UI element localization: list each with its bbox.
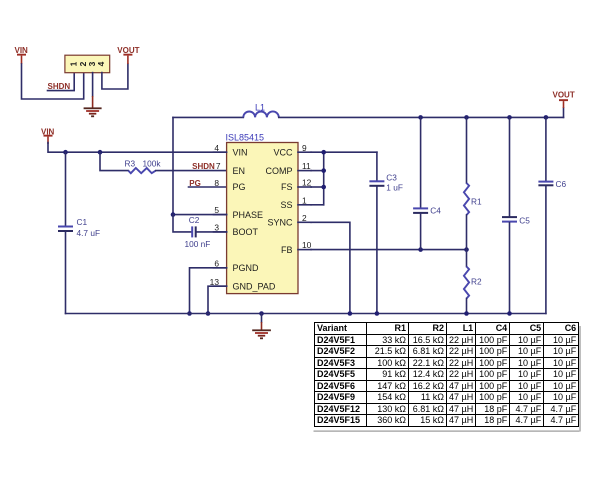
wire C6 lower [545,187,547,314]
ground (connector) [84,96,102,117]
svg-text:VIN: VIN [233,147,248,157]
wire C5 lower [509,223,511,314]
svg-text:C4: C4 [430,205,441,215]
wire C1 branch lower [65,232,67,313]
wire VIN rail to pin VIN [48,143,227,153]
svg-text:EN: EN [233,166,246,176]
table shadow bottom [314,430,580,432]
svg-text:COMP: COMP [266,166,293,176]
pin 4 (VIN) [214,143,248,158]
wire VOUT riser [563,108,565,117]
svg-text:VIN: VIN [15,46,29,55]
terminal VIN (main) [41,128,55,145]
wire SHDN to connector pin 1 [48,73,75,91]
wire GND_PAD to ground rail [208,286,227,313]
wire R2 lower [466,299,468,314]
variants table [314,322,579,427]
junction VOUT/R1 [464,115,469,120]
svg-text:C2: C2 [189,215,200,225]
wire COMP stub [311,170,324,172]
capacitor C1 [58,217,100,238]
svg-text:PHASE: PHASE [233,210,264,220]
pin 7 (EN) [233,166,246,176]
pin 3 (BOOT) [214,223,259,238]
svg-text:1: 1 [302,195,307,205]
svg-text:FB: FB [281,245,293,255]
table shadow right [579,326,581,432]
svg-text:1 uF: 1 uF [386,183,403,193]
net label SHDN7 (EN pin) [192,161,221,171]
ground (main rail) [252,314,271,340]
svg-text:100 nF: 100 nF [185,239,211,249]
wire C6 upper [545,117,547,180]
terminal VIN (top-left) [15,46,29,64]
svg-text:13: 13 [210,277,220,287]
wire SS stub [311,204,324,206]
wire R1 upper [466,117,468,183]
junction PGND [187,311,192,316]
resistor R3 [125,158,162,173]
svg-text:VOUT: VOUT [117,46,139,55]
capacitor C2 [185,215,211,249]
wire R2 upper [466,250,468,267]
svg-text:PGND: PGND [233,263,260,273]
wire R3 branch [100,152,128,170]
svg-text:6: 6 [214,258,219,268]
wire C1 branch upper [65,152,67,225]
pin 11 (COMP) [266,161,312,176]
svg-text:PG: PG [233,182,246,192]
wire VIN to connector pin 2 [22,64,84,99]
svg-text:3: 3 [214,223,219,233]
pin 2 (SYNC) [267,213,311,228]
svg-text:GND_PAD: GND_PAD [233,281,276,291]
junction SYNC/ground rail [348,311,353,316]
pin 5 (PHASE) [214,205,264,220]
svg-text:VCC: VCC [273,147,293,157]
capacitor C3 [369,172,403,192]
pin 13 (GND_PAD) [210,277,276,292]
wire C3 lower [376,187,378,314]
wire L1 left [173,116,243,118]
svg-text:1: 1 [68,61,78,66]
connector J1 [65,55,110,72]
wire C4 lower [420,214,422,250]
svg-text:12: 12 [302,178,312,188]
wire R3 to EN [156,170,227,172]
junction VIN/C1 [63,150,68,155]
net label PG with pin 8 [189,178,219,188]
wire C4 upper [420,117,422,207]
pin 1 (SS) [280,195,311,210]
wire PHASE to L1 node [173,117,227,214]
IC U1 ISL85415 [210,132,312,293]
junction VOUT/C4 [418,115,423,120]
pin 10 (FB) [281,240,312,255]
wire PG stub [189,186,227,188]
pin 9 (VCC) [273,143,311,158]
svg-text:C5: C5 [519,215,530,225]
inductor L1 [243,102,278,117]
svg-text:R3: R3 [125,158,136,168]
pin 8 (PG) [233,182,246,192]
svg-text:FS: FS [281,182,293,192]
wire FB [311,249,466,251]
svg-text:C3: C3 [386,172,397,182]
wire PHASE node down to C2 [173,215,191,232]
pin 12 (FS) [281,178,312,193]
svg-text:L1: L1 [255,102,265,112]
junction VOUT/C6 [544,115,549,120]
junction ground symbol [259,311,264,316]
svg-text:2: 2 [302,213,307,223]
junction VIN/R3 [98,150,103,155]
svg-text:SHDN: SHDN [192,162,215,171]
wire connector pin 4 to VOUT [102,64,128,89]
capacitor C4 [413,205,441,215]
junction C5/ground rail [507,311,512,316]
terminal VOUT (main) [553,90,575,108]
svg-text:SS: SS [280,200,292,210]
svg-text:5: 5 [214,205,219,215]
wire PGND to ground rail [190,268,227,314]
svg-text:10: 10 [302,240,312,250]
capacitor C6 [538,179,566,189]
wire VCC to C3 [311,151,377,153]
svg-text:4.7 uF: 4.7 uF [77,228,101,238]
svg-text:SYNC: SYNC [267,218,293,228]
svg-text:R1: R1 [471,196,482,206]
junction VOUT/C5 [507,115,512,120]
wire C3 upper [376,152,378,180]
svg-text:100k: 100k [143,158,162,168]
svg-text:SHDN: SHDN [48,82,71,91]
junction FB/C4 [418,247,423,252]
junction GND_PAD [206,311,211,316]
junction R2/ground rail [464,311,469,316]
junction FB/R1/R2 [464,247,469,252]
wire C5 upper [509,117,511,216]
svg-text:C1: C1 [77,217,88,227]
junction COMP [321,168,326,173]
svg-text:7: 7 [216,161,221,171]
wire C2 to BOOT [197,231,227,233]
svg-text:11: 11 [302,161,311,171]
svg-text:4: 4 [214,143,219,153]
svg-text:VOUT: VOUT [553,90,575,99]
resistor R1 [464,183,482,215]
junction PHASE/BOOT [171,212,176,217]
svg-text:BOOT: BOOT [233,227,259,237]
junction VCC [321,150,326,155]
capacitor C5 [502,215,530,225]
junction C3/ground rail [375,311,380,316]
pin 6 (PGND) [214,258,260,273]
wire R1 lower [466,215,468,250]
svg-text:ISL85415: ISL85415 [226,132,265,142]
wire SYNC to ground rail [311,222,350,313]
terminal VOUT (top-left) [117,46,139,64]
svg-text:C6: C6 [556,179,567,189]
svg-text:9: 9 [302,143,307,153]
svg-text:R2: R2 [471,276,482,286]
wire VCC tie-down (COMP/FS/SS) [323,152,325,205]
resistor R2 [464,267,482,299]
wire connector pin 3 to ground [92,73,94,96]
wire ground rail [66,313,546,315]
wire VOUT rail [279,116,564,118]
svg-text:4: 4 [96,61,106,66]
junction FS [321,185,326,190]
wire FS stub [311,186,324,188]
